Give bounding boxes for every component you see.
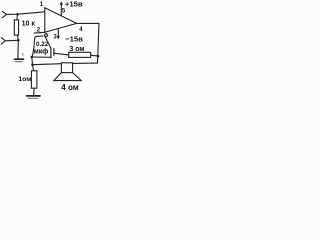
speaker BA1 box — [61, 63, 72, 73]
wire bus down — [31, 57, 34, 65]
svg-text:мкф: мкф — [34, 49, 49, 56]
node circle at inverting corner — [45, 34, 48, 37]
resistor R2 1ом (vertical) — [31, 71, 37, 95]
ground GND1 — [15, 59, 24, 61]
input terminal IN2 — [1, 38, 5, 45]
wire to R2 — [33, 65, 34, 71]
svg-text:10 к: 10 к — [22, 20, 36, 27]
resistor R1 10 к (vertical) — [14, 14, 18, 40]
capacitor C1 0.22 мкф plates — [51, 48, 54, 58]
svg-text:4 ом: 4 ом — [61, 83, 78, 92]
pin 2 wire stub — [34, 31, 45, 34]
input terminal IN1 — [2, 11, 6, 17]
wire input2 to ground node — [5, 39, 18, 42]
wire node to capacitor (diagonal) — [45, 37, 51, 49]
op-amp U1 triangle — [45, 8, 77, 33]
speaker cone — [54, 73, 81, 81]
node junction dot speaker tap — [31, 63, 34, 66]
wire input1 to op-amp pin 1 — [7, 12, 45, 15]
svg-text:−15в: −15в — [65, 34, 83, 43]
wire speaker right — [73, 62, 98, 64]
wire output from apex — [77, 23, 99, 63]
svg-text:1ом: 1ом — [18, 76, 31, 83]
svg-text:0.22: 0.22 — [36, 41, 49, 48]
pin 3 supply line with arrow — [57, 29, 60, 40]
node junction dot feedback bus top — [31, 56, 34, 59]
label 0.22 — [36, 41, 48, 46]
wire C1 right plate to R3 — [54, 53, 69, 55]
pin 5 supply line with arrow — [60, 1, 63, 15]
ground GND2 — [27, 96, 40, 98]
wire down to ground GND1 — [17, 40, 19, 58]
svg-text:3 ом: 3 ом — [69, 46, 84, 53]
stray scan mark — [22, 53, 24, 55]
resistor R3 3 ом (horizontal) — [69, 52, 98, 57]
node junction dot at R1 top — [16, 13, 19, 16]
wire C1 left plate to node — [32, 56, 51, 58]
wire node to feedback bus (curves left and down) — [32, 36, 43, 57]
node junction dot output — [97, 55, 100, 58]
wire speaker left — [33, 63, 62, 66]
node junction dot input2 — [17, 39, 20, 42]
svg-text:+15в: +15в — [65, 0, 83, 9]
